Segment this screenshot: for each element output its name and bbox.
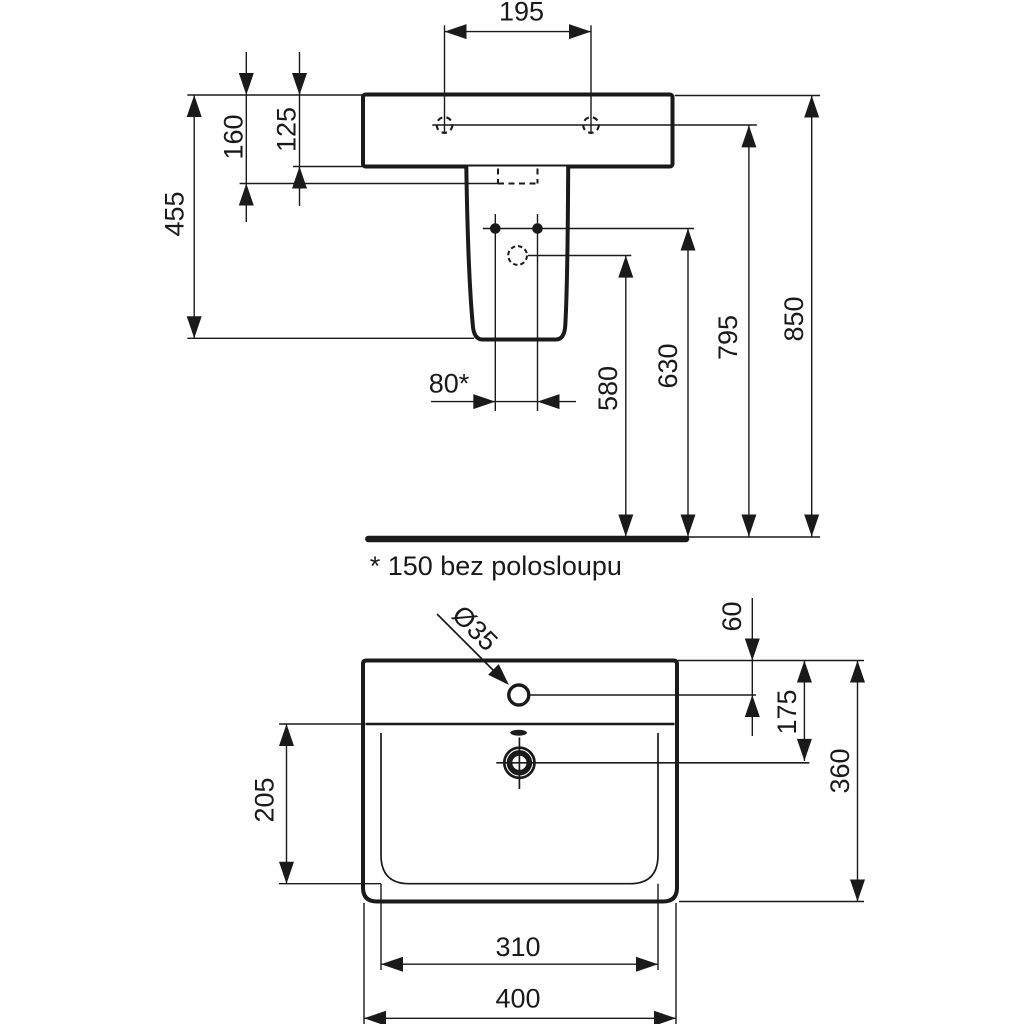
extension line for 310 left	[380, 884, 382, 970]
svg-text:400: 400	[495, 984, 540, 1014]
svg-text:60: 60	[717, 601, 747, 631]
extension line for 400 left	[363, 903, 365, 1024]
plan bottom edge extension line (right)	[679, 901, 864, 903]
svg-text:795: 795	[713, 315, 743, 360]
floor line thin extension	[686, 536, 820, 538]
reference line for 125 (basin underside)	[293, 166, 363, 168]
tap hole leader arrow	[437, 614, 509, 685]
centerline through pedestal dashed hole	[528, 255, 631, 257]
plan view inner bowl outline	[381, 733, 658, 884]
centerline through pedestal dots	[483, 228, 694, 230]
drain outer circle	[504, 748, 534, 778]
extension line for 205 bottom (bowl bottom, left)	[279, 883, 381, 885]
svg-text:* 150 bez polosloupu: * 150 bez polosloupu	[370, 551, 622, 581]
svg-text:630: 630	[653, 343, 683, 388]
svg-text:310: 310	[495, 932, 540, 962]
plan view rear ledge line	[366, 723, 675, 726]
extension line left dot down to 80* dim	[494, 214, 496, 411]
drain horizontal centerline extending to 175 dimension	[496, 762, 809, 764]
dimension 205 line with arrows	[279, 724, 294, 884]
svg-text:580: 580	[593, 366, 623, 411]
dimension 195 line with arrows	[445, 24, 592, 39]
left fixing hole (dashed circle)	[437, 117, 453, 133]
dimension 195 extension line left (crosshair through hole)	[444, 25, 446, 134]
svg-text:205: 205	[250, 777, 280, 822]
plan view basin outer outline	[363, 661, 677, 902]
dimension 125 line with outside arrows	[292, 52, 307, 206]
svg-text:125: 125	[272, 107, 302, 152]
dimension 175 line with arrows	[797, 661, 812, 761]
svg-text:455: 455	[159, 191, 189, 236]
svg-text:850: 850	[779, 296, 809, 341]
drain dashed box at pedestal top	[498, 169, 538, 184]
svg-text:360: 360	[825, 748, 855, 793]
right pedestal fixing dot	[532, 223, 543, 234]
dimension 630 line with arrows	[681, 228, 696, 537]
top reference line at basin rim level (left)	[187, 94, 363, 96]
svg-text:195: 195	[499, 0, 544, 27]
dimension 195 extension line right (crosshair through hole)	[590, 25, 592, 134]
centerline through fixing holes	[432, 124, 757, 126]
tap hole centerline extension (right)	[530, 694, 757, 696]
pedestal dashed hole circle	[508, 246, 527, 265]
dimension 80* line with outside arrows	[431, 394, 576, 409]
dimension 310 line with arrows	[381, 957, 658, 972]
pedestal (half-column) outline	[466, 167, 568, 340]
extension line for 310 right	[657, 884, 659, 970]
dimension 360 line with arrows	[850, 661, 865, 902]
tap hole circle	[509, 685, 529, 705]
svg-text:80*: 80*	[429, 369, 470, 399]
floor line (thick)	[368, 536, 686, 543]
svg-text:160: 160	[219, 114, 249, 159]
drain vertical centerline	[518, 737, 520, 789]
dimension 850 line with arrows	[804, 96, 819, 538]
extension line for 400 right	[675, 903, 677, 1024]
dimension 160 line with outside arrows	[239, 52, 254, 222]
washbasin body outline	[363, 95, 673, 167]
plan top edge extension line (right)	[678, 660, 864, 662]
left pedestal fixing dot	[490, 223, 501, 234]
dimension 580 line with arrows	[618, 256, 633, 538]
svg-text:175: 175	[772, 689, 802, 734]
extension line right dot down to 80* dim	[537, 214, 539, 411]
dimension 400 line with arrows	[364, 1011, 676, 1024]
right fixing hole (dashed circle)	[583, 117, 599, 133]
overflow slot	[510, 730, 527, 736]
top reference line at basin rim level (right)	[675, 95, 820, 97]
reference line for 160 (drain box bottom)	[240, 183, 498, 185]
dimension 455 line with arrows	[187, 95, 202, 338]
bottom reference line for 455 at pedestal foot	[187, 337, 474, 339]
dimension 60 with outside arrows	[745, 598, 760, 736]
drain inner circle	[510, 753, 530, 773]
extension line for 205 top (ledge level, left)	[279, 723, 363, 725]
dimension 795 line with arrows	[741, 125, 756, 537]
